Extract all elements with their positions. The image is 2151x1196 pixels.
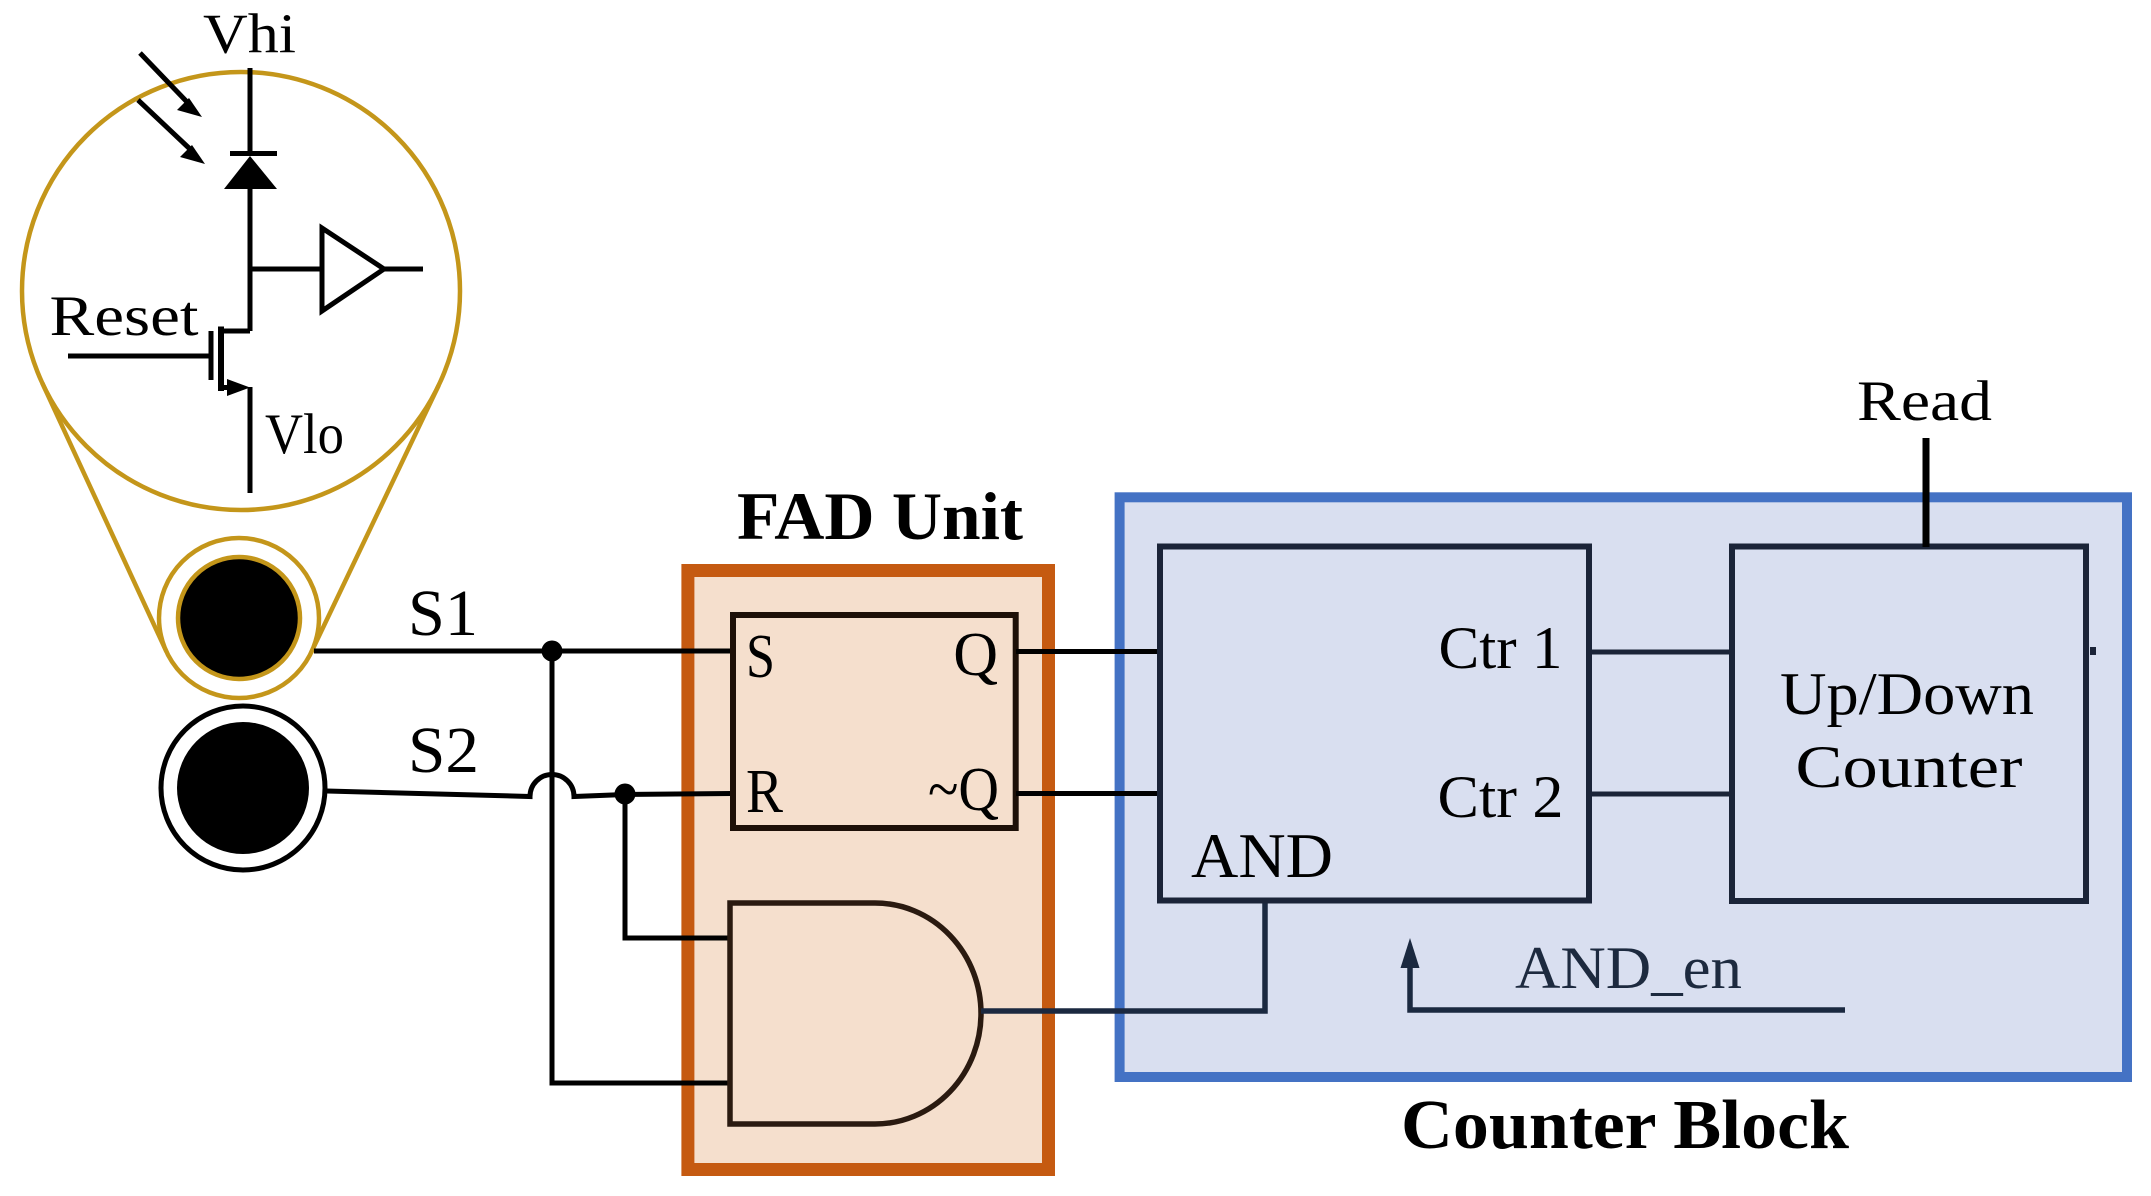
pixel P2 outer ring <box>161 706 325 870</box>
svg-text:Counter: Counter <box>1796 734 2023 800</box>
pixel P1 outer ring <box>159 538 319 698</box>
counter AND block U2 <box>1160 547 1589 901</box>
junction node S1 <box>542 641 563 662</box>
wire R junction down to AND upper input <box>625 794 730 938</box>
svg-text:FAD Unit: FAD Unit <box>737 478 1023 554</box>
svg-text:S: S <box>746 623 775 691</box>
svg-text:Up/Down: Up/Down <box>1780 661 2034 727</box>
magnifier cone right <box>311 385 439 652</box>
light arrow 1 <box>140 53 188 103</box>
wire AND_en with arrow <box>1410 965 1845 1010</box>
wire ~Q output to counter <box>1016 791 1160 796</box>
op-amp buffer A1 <box>322 228 384 311</box>
pixel P2 photodiode disc <box>177 722 309 854</box>
photodiode D1 cathode bar <box>230 151 277 156</box>
svg-text:AND_en: AND_en <box>1515 935 1742 1001</box>
svg-text:Reset: Reset <box>50 285 199 348</box>
wire buffer output <box>384 267 423 272</box>
transistor M1 drain <box>221 329 250 334</box>
Up/Down Counter U3 <box>1732 547 2086 902</box>
FAD Unit box <box>688 571 1049 1170</box>
transistor M1 source with arrow <box>221 385 236 390</box>
photodiode D1 <box>224 156 277 189</box>
magnifier circle <box>22 72 460 510</box>
wire Ctr 1 to counter <box>1592 650 1732 655</box>
wire Vhi to diode <box>248 68 253 156</box>
svg-text:Ctr 1: Ctr 1 <box>1439 615 1563 681</box>
wire diode to transistor drain <box>248 186 253 331</box>
pixel P1 photodiode disc <box>178 557 300 679</box>
wire Q output to counter <box>1016 649 1160 654</box>
wire AND gate output <box>981 903 1265 1011</box>
svg-text:AND: AND <box>1191 820 1333 891</box>
svg-text:Vhi: Vhi <box>203 4 296 66</box>
transistor M1 channel bar <box>218 327 224 392</box>
wire S1 junction down to AND lower input <box>552 651 730 1083</box>
svg-text:Q: Q <box>953 621 998 689</box>
wire source to Vlo <box>248 387 253 493</box>
svg-text:~Q: ~Q <box>928 756 999 824</box>
light arrow 2 <box>138 100 191 150</box>
svg-text:Vlo: Vlo <box>265 403 344 466</box>
svg-text:Read: Read <box>1857 370 1992 433</box>
magnifier cone left <box>42 383 166 652</box>
SR latch U1 <box>733 615 1016 828</box>
wire S1 <box>314 649 731 654</box>
wire Read <box>1923 438 1930 547</box>
junction node R <box>615 784 636 805</box>
svg-text:Counter Block: Counter Block <box>1401 1087 1849 1164</box>
wire buffer input <box>248 267 322 272</box>
wire S2 with hop <box>327 775 731 797</box>
svg-text:S1: S1 <box>408 577 478 650</box>
wire Reset to gate <box>68 354 209 359</box>
svg-text:S2: S2 <box>408 714 479 787</box>
svg-text:Ctr 2: Ctr 2 <box>1438 764 1564 830</box>
wire stub right of counter <box>2090 647 2096 655</box>
Counter Block box <box>1120 497 2127 1077</box>
wire Ctr 2 to counter <box>1592 792 1732 797</box>
svg-text:R: R <box>746 758 784 826</box>
AND gate G1 <box>730 903 981 1124</box>
transistor M1 gate bar <box>209 331 214 380</box>
